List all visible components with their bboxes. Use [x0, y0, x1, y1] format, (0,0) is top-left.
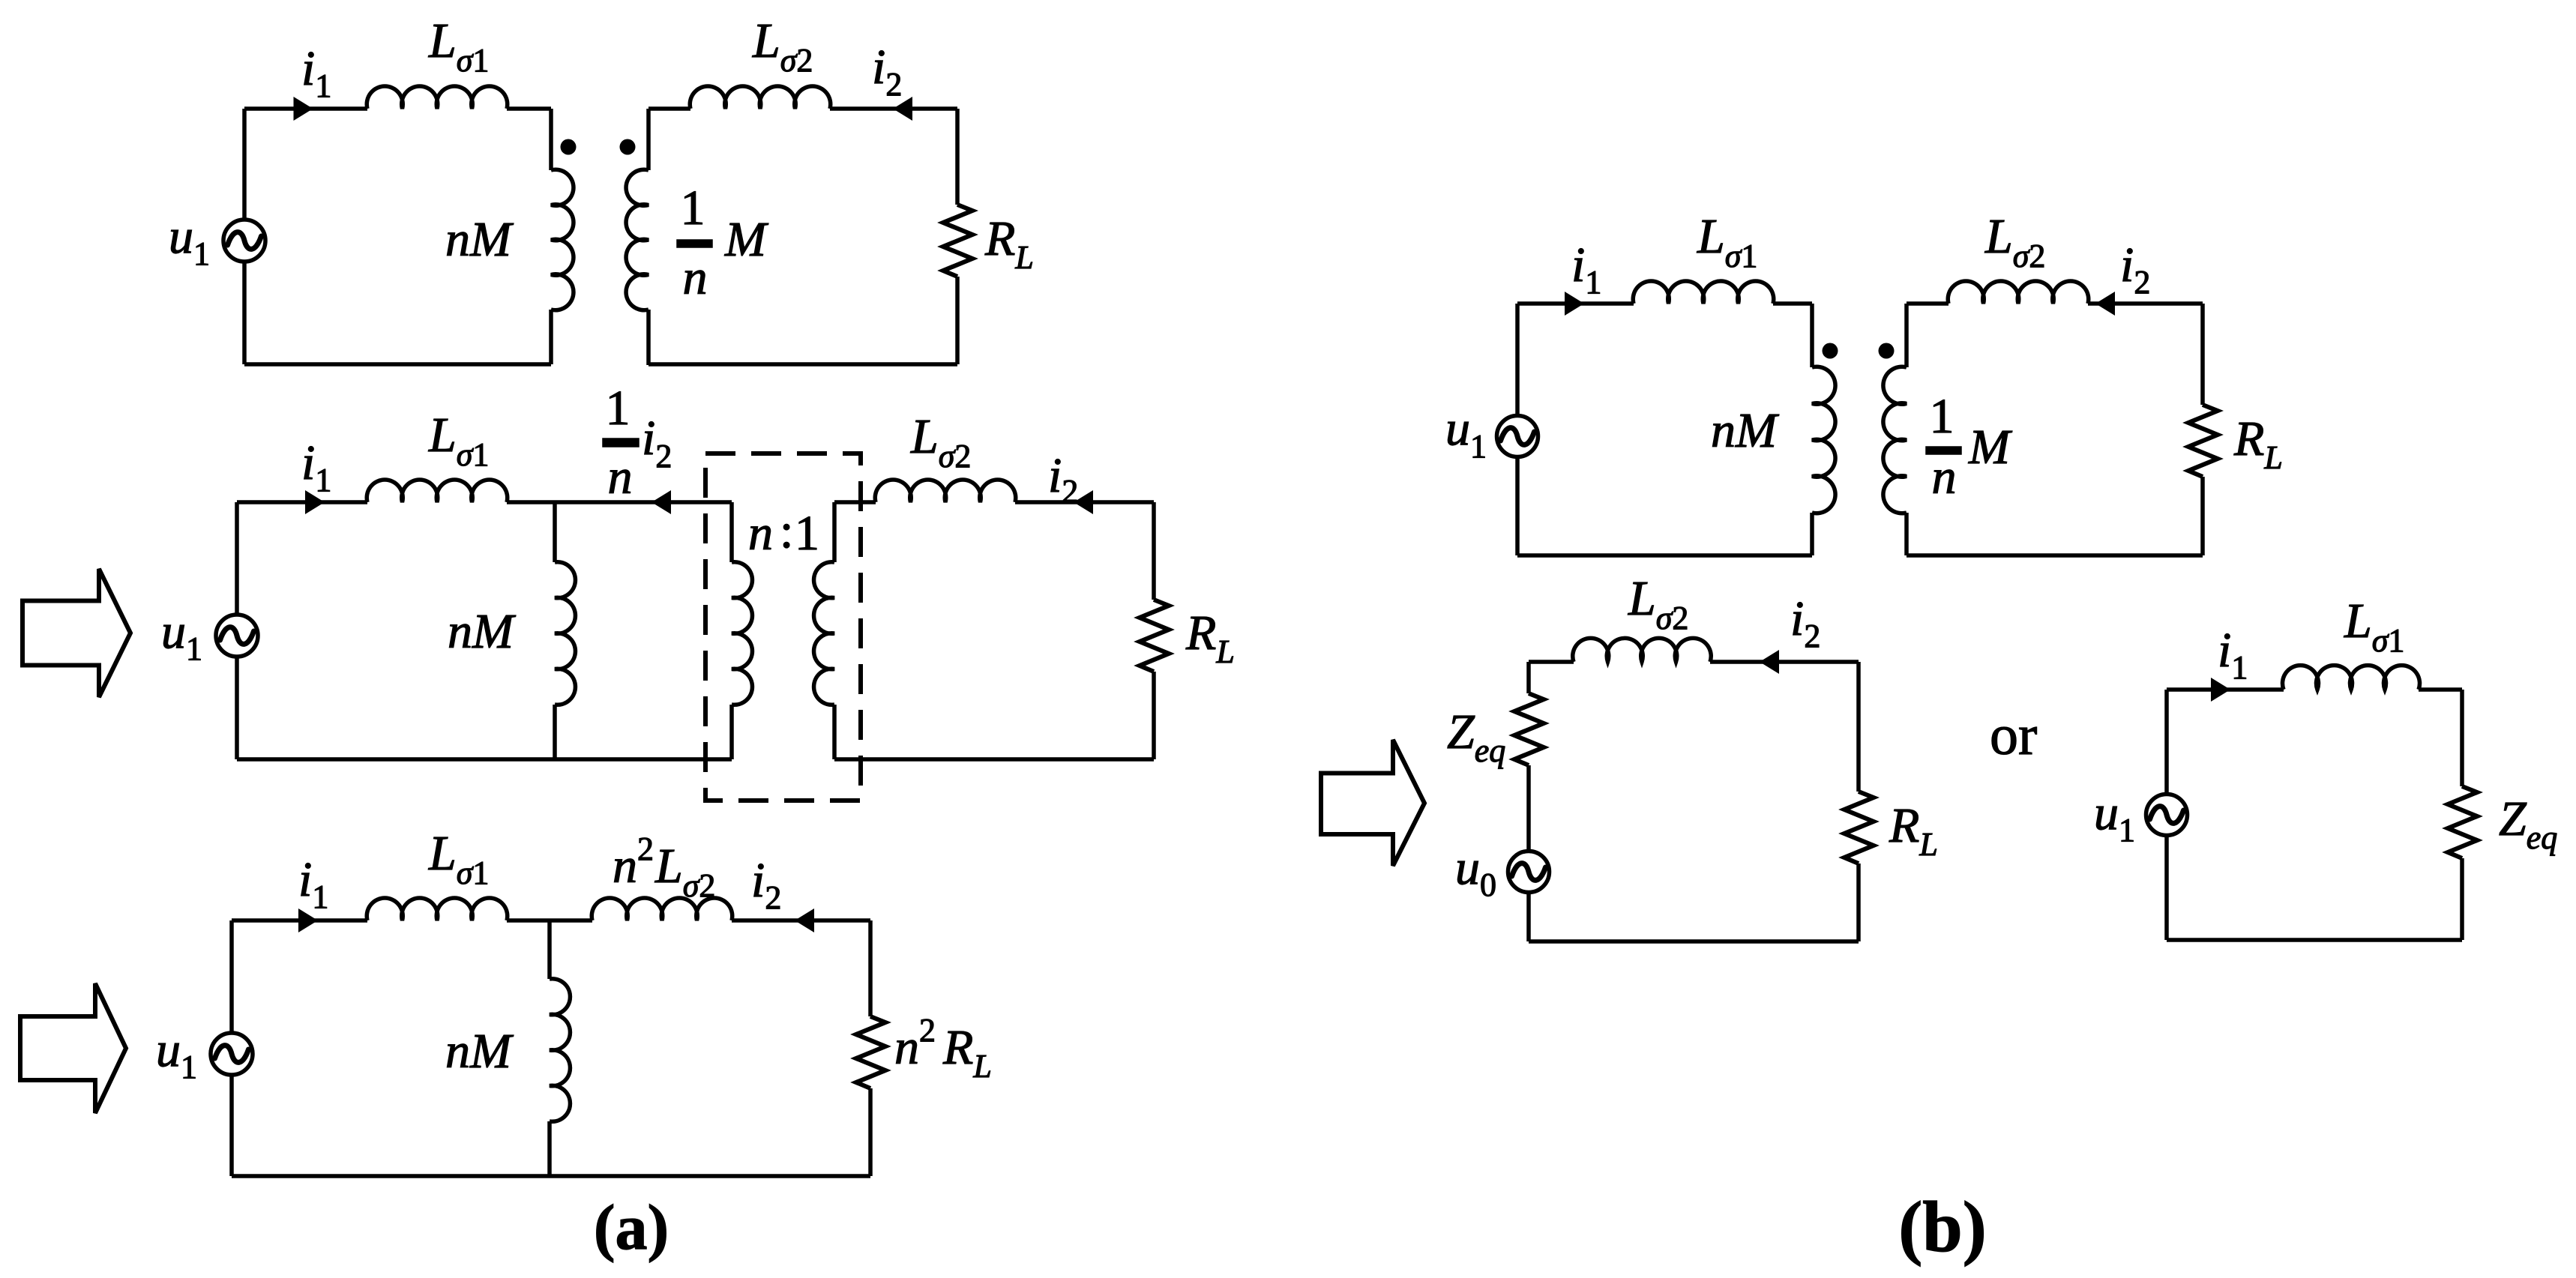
wire junction bottom lead	[547, 1121, 552, 1176]
wire left lower	[242, 262, 247, 364]
current arrow i1	[1565, 292, 1584, 316]
winding 1/n M secondary	[626, 169, 648, 310]
current arrow i1	[2211, 678, 2230, 702]
wire top-right	[2419, 687, 2462, 692]
label 1/n i2 fraction	[604, 381, 672, 504]
winding nM shunt	[550, 979, 570, 1122]
dot secondary	[620, 139, 636, 155]
svg-text:nM: nM	[445, 212, 514, 267]
inductor Lsigma2	[875, 480, 1016, 502]
inductor Lsigma1	[367, 86, 507, 109]
inductor Lsigma2	[690, 86, 831, 109]
winding transformer primary	[732, 562, 752, 705]
inductor n^2 Lsigma2	[592, 898, 732, 920]
current arrow i2	[1760, 650, 1779, 674]
wire top to winding	[1773, 301, 1812, 306]
resistor RL	[2188, 405, 2218, 477]
winding transformer secondary	[814, 562, 834, 705]
wire secondary winding top lead	[1904, 304, 1909, 367]
wire top-left	[2167, 687, 2284, 692]
winding nM primary	[1812, 367, 1835, 513]
dot primary	[1823, 343, 1838, 359]
svg-text:nM: nM	[1711, 403, 1780, 458]
voltage source u1	[216, 615, 258, 657]
block arrow	[1321, 740, 1424, 866]
current arrow i1	[298, 908, 318, 932]
wire nM branch bottom lead	[553, 705, 557, 759]
winding 1/n M secondary	[1883, 367, 1907, 513]
wire right upper	[2200, 304, 2205, 405]
resistor RL	[1844, 792, 1874, 863]
svg-text:n: n	[748, 506, 773, 561]
wire transformer right winding bottom lead	[832, 705, 837, 759]
current arrow i2	[1074, 490, 1093, 514]
resistor RL	[1140, 600, 1169, 672]
wire junction to transformer	[555, 500, 732, 504]
voltage source u1	[1497, 416, 1538, 457]
wire top-left	[244, 106, 367, 111]
svg-text::: :	[780, 504, 793, 558]
wire right upper	[2460, 690, 2464, 786]
voltage source u0	[1508, 852, 1550, 893]
resistor Zeq	[2448, 786, 2477, 858]
inductor Lsigma2	[1573, 638, 1712, 662]
dot secondary	[1879, 343, 1895, 359]
wire left lower	[1515, 457, 1520, 555]
wire top-right	[1710, 660, 1859, 664]
wire right upper	[955, 109, 960, 205]
svg-text:(a): (a)	[594, 1191, 669, 1263]
label n:1	[748, 504, 819, 561]
wire right upper	[1152, 502, 1156, 600]
wire secondary winding bottom lead	[646, 310, 651, 365]
wire winding bottom lead	[1810, 513, 1814, 555]
svg-text:nM: nM	[445, 1024, 514, 1079]
wire left upper	[229, 920, 234, 1033]
svg-text:n: n	[608, 450, 633, 504]
wire right lower	[2200, 477, 2205, 555]
inductor Lsigma1	[2283, 666, 2420, 690]
wire top to junction	[507, 918, 550, 923]
wire winding top lead	[549, 109, 553, 170]
svg-text:n: n	[683, 250, 708, 305]
svg-text:nM: nM	[448, 604, 517, 659]
svg-text:M: M	[724, 212, 769, 267]
svg-text:1: 1	[795, 506, 819, 561]
voltage source u1	[223, 220, 265, 262]
wire top-left	[237, 500, 367, 504]
wire top right of transformer	[834, 500, 876, 504]
current arrow i2	[2095, 292, 2115, 316]
wire bottom A1 secondary	[648, 362, 957, 367]
current arrow i1	[294, 97, 313, 121]
wire transformer right winding top lead	[832, 502, 837, 562]
block arrow	[20, 983, 126, 1113]
voltage source u1	[2146, 795, 2188, 836]
wire right lower	[1152, 672, 1156, 759]
wire right lower	[1856, 863, 1861, 941]
wire nM branch top lead	[553, 502, 557, 562]
current arrow i2	[893, 97, 912, 121]
svg-text:1: 1	[681, 181, 705, 235]
wire bottom B1 secondary	[1907, 553, 2203, 558]
wire bottom-left A2	[237, 757, 732, 762]
svg-text:or: or	[1990, 704, 2037, 767]
wire left upper	[1515, 304, 1520, 415]
wire top-left	[1529, 660, 1574, 664]
wire right upper	[1856, 662, 1861, 792]
wire left upper	[242, 109, 247, 220]
wire secondary top-left	[648, 106, 690, 111]
wire left lower	[229, 1075, 234, 1176]
wire left lower	[1526, 893, 1531, 941]
voltage source u1	[211, 1033, 253, 1075]
current arrow 1/n i2	[651, 490, 671, 514]
svg-text:M: M	[1968, 420, 2013, 474]
wire left upper	[2164, 690, 2169, 794]
wire bottom B1 primary	[1517, 553, 1812, 558]
svg-text:1: 1	[1930, 389, 1954, 444]
wire secondary winding top lead	[646, 109, 651, 170]
wire right lower	[955, 277, 960, 364]
inductor Lsigma1	[367, 898, 507, 920]
wire bottom A1 primary	[244, 362, 551, 367]
wire bottom B3	[2167, 938, 2462, 942]
wire top to junction	[507, 500, 555, 504]
wire secondary top-right	[1015, 500, 1154, 504]
wire left upper	[235, 502, 239, 615]
wire top-left	[232, 918, 367, 923]
resistor Zeq	[1514, 693, 1544, 765]
dashed box ideal transformer	[705, 453, 861, 801]
wire top mid	[550, 918, 592, 923]
inductor Lsigma1	[1633, 281, 1774, 304]
resistor RL	[943, 205, 972, 277]
resistor n^2 RL	[856, 1016, 885, 1088]
svg-text:n: n	[1932, 450, 1957, 504]
svg-text:(b): (b)	[1898, 1187, 1986, 1267]
wire secondary top-right	[830, 106, 957, 111]
inductor Lsigma1	[367, 480, 507, 502]
label 1/n M fraction	[678, 181, 769, 305]
wire right lower	[868, 1088, 873, 1176]
svg-text:1: 1	[606, 381, 631, 435]
wire junction top lead	[547, 920, 552, 979]
wire left lower	[2164, 836, 2169, 940]
wire right upper	[868, 920, 873, 1016]
current arrow i2	[795, 908, 814, 932]
wire bottom-right A2	[834, 757, 1154, 762]
wire secondary top-left	[1907, 301, 1948, 306]
wire left lower	[235, 657, 239, 759]
wire winding bottom lead	[549, 310, 553, 364]
winding nM shunt	[555, 562, 575, 705]
wire winding top lead	[1810, 304, 1814, 367]
wire transformer left winding top lead	[729, 502, 734, 562]
wire top-left	[1517, 301, 1634, 306]
inductor Lsigma2	[1948, 281, 2089, 304]
wire top to winding	[507, 106, 551, 111]
dot primary	[561, 139, 577, 155]
wire secondary top-right	[2088, 301, 2203, 306]
label 1/n M fraction	[1928, 389, 2013, 504]
wire right lower	[2460, 858, 2464, 940]
block arrow	[22, 569, 130, 697]
wire bottom B2	[1529, 939, 1859, 944]
winding nM primary	[551, 169, 574, 310]
wire bottom A3	[232, 1174, 870, 1178]
current arrow i1	[305, 490, 325, 514]
wire left upper	[1526, 662, 1531, 693]
wire transformer left winding bottom lead	[729, 705, 734, 759]
wire secondary winding bottom lead	[1904, 513, 1909, 555]
wire left middle	[1526, 765, 1531, 851]
wire top-right	[732, 918, 870, 923]
